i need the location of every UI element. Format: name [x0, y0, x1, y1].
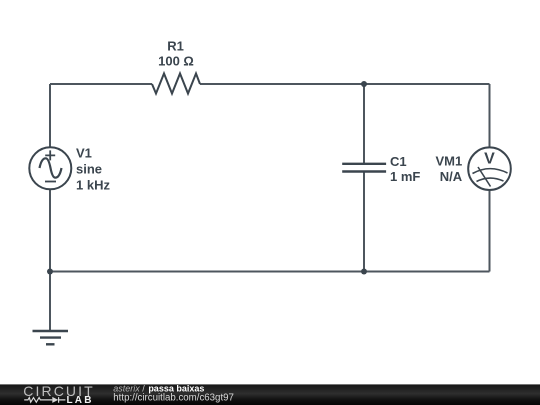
node junction at C1 bottom — [361, 269, 367, 275]
svg-text:R1: R1 — [167, 38, 184, 53]
wire VM1 bottom vertical — [489, 190, 491, 272]
svg-text:VM1: VM1 — [435, 154, 462, 169]
svg-text:sine: sine — [76, 162, 102, 177]
wire left vertical (top of V1) — [49, 84, 51, 148]
wire left vertical (bottom of V1) — [49, 190, 51, 272]
wire VM1 top vertical — [489, 84, 491, 148]
wire bottom horizontal — [50, 271, 490, 273]
svg-text:1 mF: 1 mF — [390, 169, 420, 184]
CircuitLab logo schematic squiggle — [24, 397, 65, 403]
svg-text:N/A: N/A — [440, 169, 463, 184]
wire C1 bottom vertical — [363, 172, 365, 272]
svg-text:V1: V1 — [76, 146, 92, 161]
wire ground stem — [49, 272, 51, 331]
voltage source V1 — [29, 147, 71, 189]
svg-text:LAB: LAB — [67, 395, 94, 405]
wire top-right horizontal — [200, 83, 490, 85]
node junction at ground/bottom wire — [47, 269, 53, 275]
svg-text:1 kHz: 1 kHz — [76, 177, 110, 192]
node junction at R1/C1 top — [361, 81, 367, 87]
svg-text:http://circuitlab.com/c63gt97: http://circuitlab.com/c63gt97 — [113, 392, 234, 403]
svg-text:100 Ω: 100 Ω — [158, 54, 194, 69]
capacitor C1 — [342, 164, 386, 172]
wire top-left horizontal — [50, 83, 152, 85]
voltmeter VM1 — [468, 147, 511, 190]
svg-text:V: V — [484, 151, 495, 168]
wire C1 top vertical — [363, 84, 365, 164]
resistor R1 — [152, 74, 200, 94]
svg-text:C1: C1 — [390, 154, 407, 169]
ground — [33, 331, 69, 344]
